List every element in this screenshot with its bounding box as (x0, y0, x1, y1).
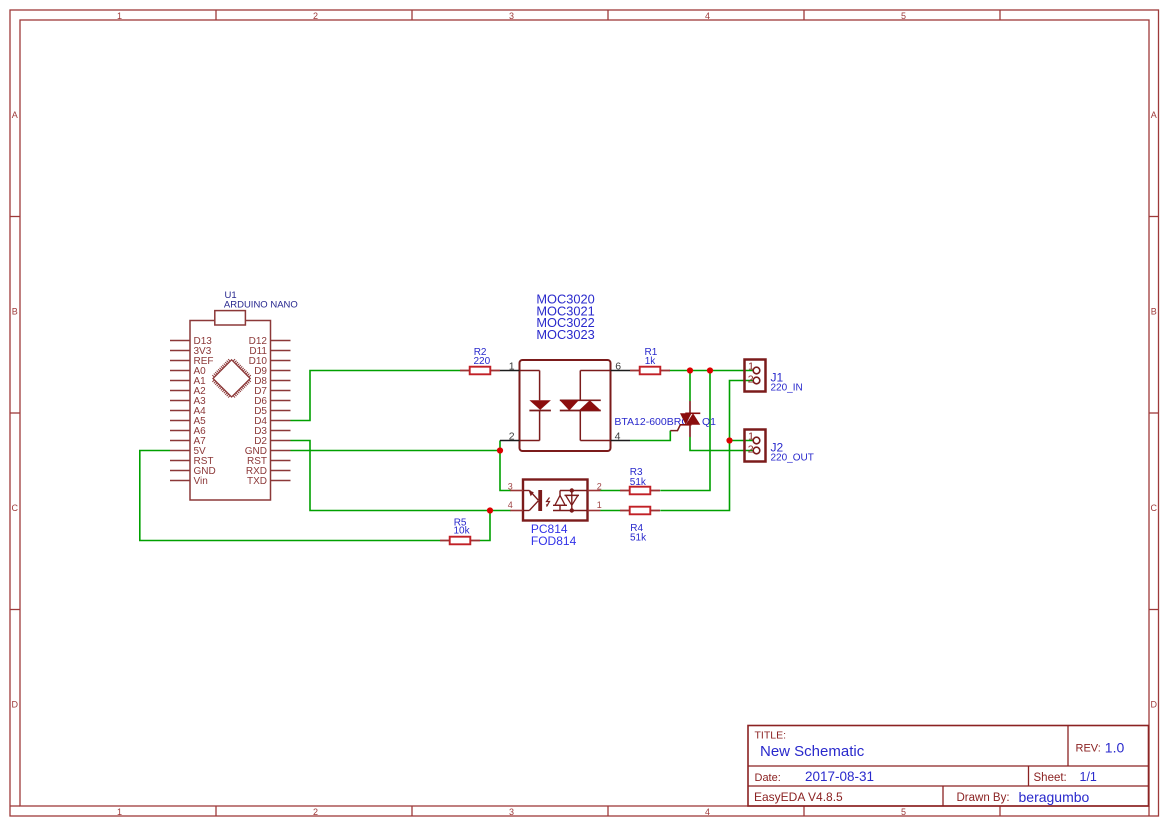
svg-text:Q1: Q1 (702, 416, 716, 428)
PC814 light arrow (547, 498, 550, 507)
svg-text:51k: 51k (630, 477, 647, 488)
svg-text:New Schematic: New Schematic (760, 743, 865, 760)
svg-text:3: 3 (509, 11, 514, 21)
resistor R4 (620, 507, 660, 515)
wire node to PC814 pin3 (500, 451, 511, 491)
U1 left pin REF (170, 356, 214, 367)
U1 left pin A3 (170, 396, 206, 407)
MOC pin 2 (500, 431, 520, 443)
svg-text:beragumbo: beragumbo (1019, 789, 1090, 805)
U1 right pin D4 (254, 416, 290, 427)
svg-text:2: 2 (597, 481, 602, 491)
U1 left pin A2 (170, 386, 206, 397)
svg-text:C: C (1151, 503, 1158, 513)
wire node to Q1 MT2 (689, 371, 691, 402)
svg-text:Vin: Vin (194, 476, 208, 487)
svg-text:2017-08-31: 2017-08-31 (805, 769, 874, 784)
PC814 internal photodiode pair (553, 488, 588, 512)
U1 left pin A6 (170, 426, 206, 437)
U1 right pin D11 (249, 346, 290, 357)
connector J1 (745, 360, 766, 392)
svg-text:BTA12-600BRG: BTA12-600BRG (614, 416, 689, 428)
PC814 pin 1 (588, 500, 602, 510)
svg-text:51k: 51k (630, 533, 647, 544)
svg-text:3: 3 (508, 481, 513, 491)
svg-text:1: 1 (117, 11, 122, 21)
svg-text:A: A (12, 110, 18, 120)
svg-text:1: 1 (597, 500, 602, 510)
svg-text:MOC3023: MOC3023 (536, 327, 594, 342)
resistor R3 (620, 487, 660, 495)
wire GND to node (291, 450, 501, 452)
junction J2 pin1 node (726, 437, 732, 443)
svg-text:220: 220 (474, 356, 491, 367)
wire R1 to J1 pin1 (669, 370, 753, 372)
wire node to R3 (660, 371, 710, 491)
wire R4 right to J-nets (660, 441, 729, 511)
MOC internal LED (520, 371, 551, 441)
U1 left pin D13 (170, 336, 212, 347)
U1 right pin D2 (254, 436, 290, 447)
U1 left pin A5 (170, 416, 206, 427)
wire node to MOC pin2 (499, 441, 501, 451)
svg-text:4: 4 (508, 500, 513, 510)
U1 left pin A1 (170, 376, 206, 387)
wire 5V to R5 (140, 451, 440, 541)
MOC302x type list label (536, 291, 594, 342)
svg-text:A: A (1151, 110, 1157, 120)
svg-text:REV:: REV: (1076, 742, 1101, 754)
svg-text:D: D (12, 700, 19, 710)
svg-text:2: 2 (313, 11, 318, 21)
svg-text:4: 4 (705, 807, 710, 817)
svg-text:D: D (1151, 700, 1158, 710)
U1 left pin A4 (170, 406, 206, 417)
resistor R2 (460, 367, 500, 375)
U1 right pin RXD (246, 466, 291, 477)
PC814 pin 3 (508, 481, 523, 491)
junction D2/R5 node (487, 507, 493, 513)
svg-text:4: 4 (705, 11, 710, 21)
connector J2 (745, 430, 766, 462)
wire R5 to node (480, 511, 490, 541)
wire D2 to PC814 pin4 (291, 441, 511, 511)
svg-text:B: B (1151, 307, 1157, 317)
svg-text:10k: 10k (454, 526, 471, 537)
MOC pin 4 (611, 431, 631, 443)
U1 left pin 5V (170, 446, 206, 457)
U1 left pin A0 (170, 366, 206, 377)
title block (748, 726, 1149, 807)
U1 right pin D5 (254, 406, 290, 417)
svg-text:220_OUT: 220_OUT (771, 453, 814, 464)
MOC internal triac (560, 371, 611, 441)
PC814 internal LED (523, 490, 542, 511)
wire Q1 MT1 to J2 pin2 (690, 437, 753, 451)
PC814 pin 4 (508, 500, 523, 510)
svg-text:Date:: Date: (755, 772, 781, 784)
MOC pin 1 (500, 361, 520, 373)
optocoupler PC814 body (523, 480, 588, 521)
wire MOC pin4 to Q1 gate (630, 431, 670, 441)
svg-text:3: 3 (509, 807, 514, 817)
svg-text:5: 5 (901, 807, 906, 817)
U1 right pin GND (245, 446, 291, 457)
svg-text:EasyEDA V4.8.5: EasyEDA V4.8.5 (754, 790, 843, 804)
U1 right pin D7 (254, 386, 290, 397)
PC814 pin 2 (588, 481, 602, 491)
U1 left pin Vin (170, 476, 208, 487)
svg-text:B: B (12, 307, 18, 317)
U1 left pin A7 (170, 436, 206, 447)
junction GND node (497, 447, 503, 453)
U1 right pin D6 (254, 396, 290, 407)
U1 right pin D8 (254, 376, 290, 387)
svg-text:1.0: 1.0 (1105, 739, 1125, 755)
MOC pin 6 (611, 361, 631, 373)
wire D4 to R2 (291, 371, 461, 421)
svg-text:TITLE:: TITLE: (755, 729, 787, 741)
wire R3 left to PC814 pin2 (600, 490, 620, 492)
svg-text:1: 1 (509, 361, 515, 373)
svg-text:2: 2 (509, 431, 515, 443)
component U1 ARDUINO NANO body (190, 311, 271, 500)
svg-text:Sheet:: Sheet: (1034, 772, 1067, 784)
svg-text:220_IN: 220_IN (771, 383, 803, 394)
svg-text:C: C (12, 503, 19, 513)
junction R1/Q1 node (687, 367, 693, 373)
wire node to J2 pin1 (730, 440, 754, 442)
optocoupler MOC302x body (520, 360, 611, 451)
U1 left pin 3V3 (170, 346, 212, 357)
svg-text:1/1: 1/1 (1080, 770, 1097, 784)
svg-text:TXD: TXD (247, 476, 267, 487)
svg-text:ARDUINO NANO: ARDUINO NANO (224, 299, 298, 310)
svg-text:1k: 1k (645, 356, 657, 367)
svg-text:2: 2 (313, 807, 318, 817)
svg-text:Drawn By:: Drawn By: (957, 792, 1010, 804)
U1 right pin D10 (249, 356, 291, 367)
junction R1/R3 node (707, 367, 713, 373)
U1 left pin GND (170, 466, 216, 477)
U1 right pin D12 (249, 336, 291, 347)
svg-text:6: 6 (615, 361, 621, 373)
wire R4 left to PC814 pin1 (600, 510, 620, 512)
svg-text:5: 5 (901, 11, 906, 21)
resistor R5 (440, 537, 480, 545)
svg-text:4: 4 (615, 431, 621, 443)
resistor R1 (630, 367, 670, 375)
U1 right pin D9 (254, 366, 290, 377)
U1 right pin TXD (247, 476, 291, 487)
transistor Q1 triac (670, 401, 700, 437)
U1 right pin D3 (254, 426, 290, 437)
wire node to J1 pin2 (730, 381, 754, 441)
svg-text:FOD814: FOD814 (531, 534, 577, 548)
U1 left pin RST (170, 456, 214, 467)
U1 right pin RST (247, 456, 291, 467)
svg-text:1: 1 (117, 807, 122, 817)
